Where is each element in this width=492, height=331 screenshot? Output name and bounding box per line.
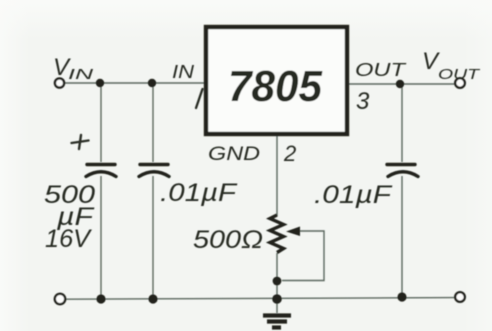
svg-text:OUT: OUT xyxy=(355,60,408,80)
svg-text:IN: IN xyxy=(68,66,93,83)
svg-text:2: 2 xyxy=(283,141,296,166)
svg-text:GND: GND xyxy=(208,144,260,165)
svg-text:3: 3 xyxy=(356,88,370,115)
svg-text:500Ω: 500Ω xyxy=(193,226,263,254)
svg-text:OUT: OUT xyxy=(438,66,481,83)
svg-text:16V: 16V xyxy=(45,225,92,253)
svg-text:.01µF: .01µF xyxy=(160,179,238,207)
svg-text:IN: IN xyxy=(172,62,195,82)
svg-text:7805: 7805 xyxy=(228,62,323,111)
svg-text:.01µF: .01µF xyxy=(314,181,393,209)
